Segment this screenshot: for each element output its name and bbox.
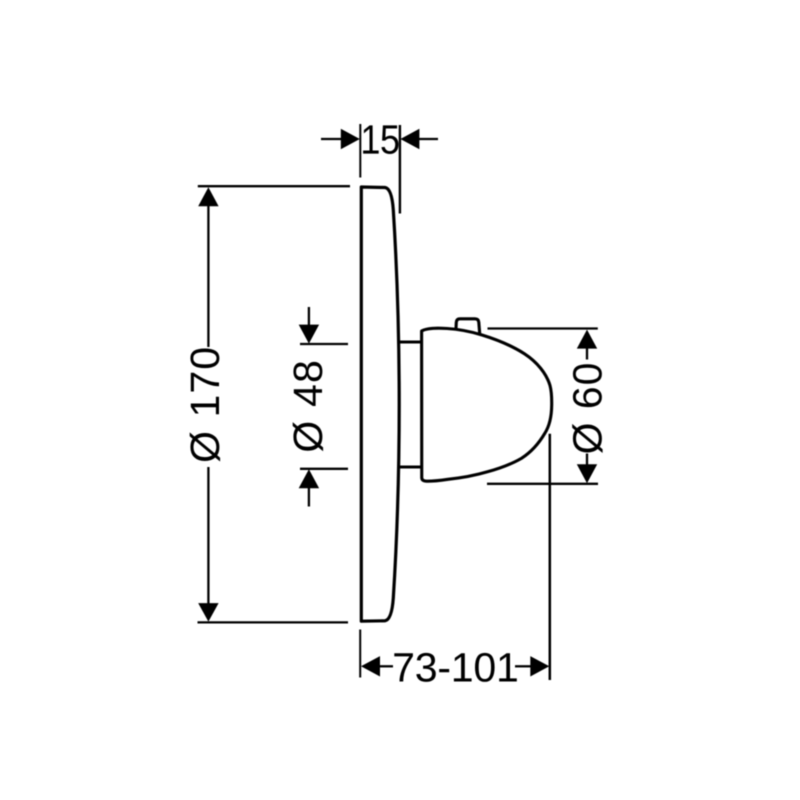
collar top edge	[398, 340, 422, 343]
dim Ø60: bottom arrowhead pointing down	[577, 464, 597, 483]
dim Ø48: bottom stem	[308, 487, 310, 507]
dim Ø60: top arrowhead pointing up	[577, 330, 597, 349]
label "15"	[363, 125, 398, 154]
handle knob outline	[422, 328, 552, 481]
dim Ø48: top stem	[308, 307, 310, 326]
dim Ø48: bottom arrowhead pointing up	[299, 469, 319, 488]
dim 15: right extension line	[399, 125, 401, 214]
escutcheon plate outline	[361, 187, 399, 621]
dim Ø48: top arrowhead pointing down	[299, 325, 319, 344]
dim 15: left extension line	[359, 124, 361, 178]
label "Ø 48"	[293, 362, 323, 451]
dim Ø60: bottom extension line	[487, 483, 598, 485]
label "Ø 60"	[572, 364, 602, 453]
label "Ø 170"	[190, 349, 220, 462]
dim Ø170: top arrowhead	[198, 187, 218, 206]
dim Ø60: bottom stem	[586, 454, 588, 467]
handle button nub	[456, 319, 480, 335]
dim 73-101: left extension line	[359, 630, 361, 678]
label "73-101"	[394, 653, 517, 682]
dim 73-101: left arrowhead pointing left	[361, 656, 380, 676]
dim Ø170: upper dim line segment	[207, 205, 209, 347]
dim 15: left arrow lead line	[321, 138, 343, 140]
dim 15: right arrowhead	[400, 129, 419, 149]
dim 73-101: right lead line	[515, 665, 531, 667]
dim 73-101: right arrowhead pointing right	[530, 656, 549, 676]
dim 15: right arrow lead line	[418, 138, 438, 140]
collar bottom edge	[399, 465, 422, 468]
dim 15: left arrowhead	[341, 129, 360, 149]
dim Ø170: bottom extension line	[198, 621, 349, 623]
dim Ø48: top extension line	[300, 343, 348, 345]
dim 73-101: right extension line	[549, 434, 552, 680]
dim Ø60: top extension line	[488, 327, 598, 329]
dim Ø60: top stem	[586, 347, 588, 360]
dim 73-101: left lead line	[378, 665, 393, 667]
dim Ø170: top extension line	[198, 185, 350, 187]
dim Ø48: bottom extension line	[300, 468, 348, 470]
dim Ø170: bottom arrowhead	[198, 603, 218, 622]
dim Ø170: lower dim line segment	[207, 467, 209, 604]
